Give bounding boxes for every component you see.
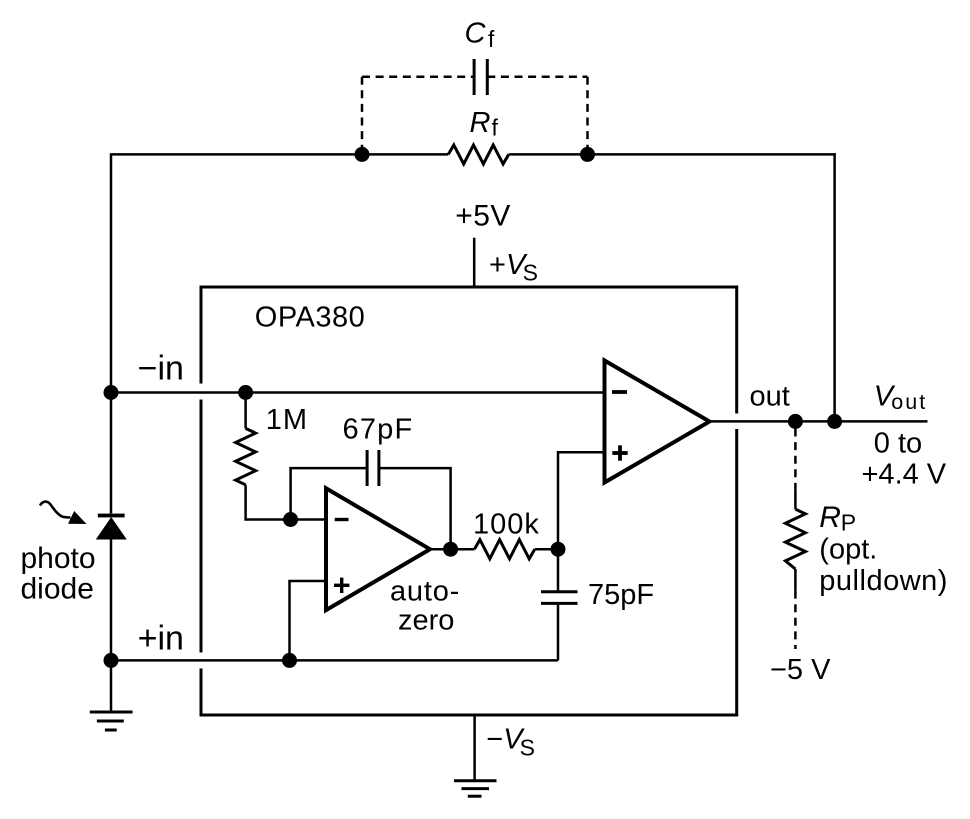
wire: Rp solid top lead [794, 490, 797, 510]
capacitor C 75pF plates [541, 592, 578, 604]
light arrow head [68, 511, 87, 524]
wire: auto-zero output to 100k [430, 548, 474, 551]
wire: +5V supply stub [473, 238, 476, 287]
svg-text:(opt.: (opt. [819, 534, 877, 566]
wire: -in input [111, 391, 605, 394]
wire: 100k to node [535, 548, 558, 551]
svg-text:100k: 100k [473, 509, 540, 541]
svg-text:C: C [465, 17, 487, 49]
wire: Cf branch left vertical (dashed) [361, 77, 364, 153]
svg-text:+in: +in [138, 620, 184, 658]
op-amp U1 OPA380 package box [200, 287, 739, 715]
photodiode D1 triangle [96, 517, 127, 540]
resistor Rf [448, 145, 508, 164]
photodiode D1 cathode bar [98, 514, 125, 518]
svg-text:S: S [520, 735, 535, 761]
light arrow squiggle [40, 502, 71, 518]
svg-text:+5V: +5V [455, 199, 511, 232]
capacitor Cf plates [474, 59, 487, 95]
wire: output [708, 420, 928, 423]
svg-text:0 to: 0 to [874, 428, 922, 460]
node: +in / U2 plus junction [282, 653, 297, 668]
wire: right vertical from feedback down to output [833, 153, 836, 421]
svg-text:f: f [488, 26, 495, 52]
op-amp U1 triangle [605, 361, 710, 483]
wire: Rp solid bottom lead [794, 569, 797, 591]
node: -in / photodiode junction [104, 385, 119, 400]
ground under photodiode [90, 712, 133, 730]
wire: 1M top segment [244, 393, 247, 429]
resistor R 1M [236, 428, 256, 484]
wire: node down to 75pF [557, 549, 560, 592]
wire: +in rail up to U2 plus input [290, 581, 327, 660]
wire: left vertical from feedback to photodiode [110, 153, 113, 513]
svg-text:S: S [523, 260, 538, 286]
svg-text:R: R [470, 107, 491, 139]
svg-text:f: f [492, 115, 499, 141]
wire: 67pF feedback right [379, 468, 451, 549]
node: auto-zero output junction [443, 542, 458, 557]
U2 plus symbol [334, 578, 349, 593]
U1 plus symbol [612, 445, 627, 460]
wire: Rp dashed top [794, 429, 797, 490]
capacitor C 67pF plates [367, 450, 379, 486]
op-amp U2 auto-zero [326, 488, 430, 610]
wire: Cf branch top left (dashed) [362, 75, 474, 78]
wire: Cf branch top right (dashed) [487, 75, 587, 78]
wire: +in input [111, 659, 558, 662]
node: out / Rp junction [788, 414, 803, 429]
ground under -Vs [454, 781, 497, 796]
svg-text:auto-: auto- [390, 575, 460, 607]
U1 minus symbol [612, 390, 627, 394]
node: 100k / 75pF junction [551, 542, 566, 557]
svg-text:R: R [819, 501, 841, 534]
svg-text:−in: −in [138, 350, 184, 388]
wire: top feedback horizontal (right of Rf) [509, 153, 836, 156]
wire: Rp dashed bottom to -5V [794, 591, 797, 649]
svg-text:pulldown): pulldown) [819, 565, 948, 597]
svg-text:out: out [891, 390, 927, 414]
svg-text:P: P [841, 510, 856, 536]
node: Vout / feedback junction [827, 414, 842, 429]
wire: -Vs stub [473, 715, 476, 780]
wire: 67pF feedback left [291, 468, 368, 519]
wire: 75pF bottom to +in rail [557, 603, 560, 660]
wire: top feedback horizontal (left of Rf) [111, 153, 448, 156]
node: Cf right junction [580, 147, 595, 162]
node: auto-zero minus input junction [283, 512, 298, 527]
svg-text:67pF: 67pF [343, 414, 414, 446]
wire: 1M bottom to auto-zero minus input [246, 485, 326, 520]
U2 minus symbol [335, 518, 349, 521]
wire: Cf branch right vertical (dashed) [586, 77, 589, 153]
wire: node up to U1 plus input [558, 452, 605, 549]
svg-text:photo: photo [21, 542, 96, 575]
svg-text:zero: zero [398, 605, 454, 637]
node: 1M top junction [238, 385, 253, 400]
svg-text:OPA380: OPA380 [255, 301, 365, 333]
svg-text:−5 V: −5 V [770, 654, 831, 686]
resistor R 100k [474, 540, 534, 559]
svg-text:diode: diode [21, 573, 94, 606]
wire: left vertical from photodiode to ground [110, 539, 113, 712]
svg-text:+4.4 V: +4.4 V [862, 459, 947, 491]
resistor Rp [785, 509, 805, 569]
svg-text:75pF: 75pF [588, 579, 654, 611]
node: +in / photodiode junction [104, 653, 119, 668]
svg-text:out: out [750, 380, 790, 412]
svg-text:1M: 1M [266, 404, 308, 436]
node: Cf left junction [355, 147, 370, 162]
